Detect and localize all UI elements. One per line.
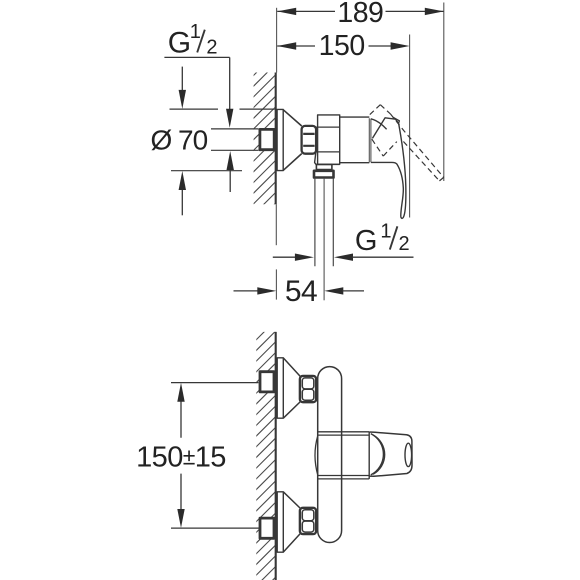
lever handle notch xyxy=(393,117,400,123)
svg-text:G: G xyxy=(168,27,191,60)
extension line at wall for dims 189/150 xyxy=(276,8,278,73)
svg-text:1: 1 xyxy=(190,21,201,43)
outlet pipe centre extension line xyxy=(323,179,325,301)
body left bulge xyxy=(315,436,318,476)
dia 70 extension line bottom xyxy=(171,170,242,172)
lever pivot dome arc (side view) xyxy=(371,119,387,130)
outlet G 1/2 dimension line xyxy=(273,256,298,258)
outlet pipe lines xyxy=(315,178,333,266)
dashed lever bottom edge xyxy=(403,142,439,181)
lower inlet group (mirrored) xyxy=(260,492,316,552)
dashed lever knob (open position) xyxy=(370,105,444,181)
dimension 189 line xyxy=(277,10,443,12)
svg-text:2: 2 xyxy=(206,36,217,58)
G 1/2 leader vertical with arrow to union square top xyxy=(229,57,231,111)
outlet collar lower band (thick) xyxy=(314,171,334,178)
lever handle blade xyxy=(371,123,406,218)
dimension 189 left arrowhead xyxy=(277,8,296,15)
upper escutcheon plate xyxy=(277,358,283,418)
dashed lever tip xyxy=(439,177,443,181)
dia 70 bottom arrow (up) xyxy=(181,188,183,215)
escutcheon plate (side view) xyxy=(277,109,283,170)
cartridge ring lines xyxy=(318,432,370,479)
dimension 189 right arrowhead xyxy=(425,8,444,15)
dimension 150±15 line xyxy=(180,400,182,511)
cartridge face line xyxy=(368,432,370,479)
svg-text:G: G xyxy=(355,225,378,257)
wall hatch (bottom drawing) xyxy=(248,293,292,580)
dia 70 top arrow (down) xyxy=(181,67,183,92)
cartridge cylinder (side view) xyxy=(340,117,370,163)
svg-text:189: 189 xyxy=(337,0,383,29)
label G 1/2 slash xyxy=(197,30,205,53)
hex nut (side view) xyxy=(302,126,317,154)
svg-text:54: 54 xyxy=(285,275,317,308)
dimension 54 line and arrows xyxy=(234,290,260,292)
extension line lower inlet centre xyxy=(171,527,259,529)
upper hex nut xyxy=(300,376,316,402)
dashed lever top edge xyxy=(390,114,443,177)
union square extension lines xyxy=(211,129,259,150)
extension line x=409.6 for dim 150 xyxy=(409,35,411,218)
wall hatch (side view, top drawing) xyxy=(244,39,290,246)
dimension 150±15 bottom arrowhead xyxy=(177,509,184,528)
upper escutcheon cone xyxy=(283,358,300,418)
escutcheon cone (side view) xyxy=(283,110,301,171)
handle dome arcs xyxy=(371,434,384,475)
svg-text:1: 1 xyxy=(380,221,391,243)
body capsule (bottom view) xyxy=(318,367,342,543)
G 1/2 leader underline xyxy=(164,56,229,58)
handle end oval xyxy=(405,443,412,466)
wall surface line (side view) xyxy=(275,73,277,205)
wall surface line (bottom view) xyxy=(275,332,277,580)
wall line thin continuation below wall xyxy=(275,204,277,245)
union square bottom arrow (up) xyxy=(229,168,231,192)
dashed lever neck notch xyxy=(372,139,383,156)
outlet G 1/2 slash xyxy=(390,226,398,249)
inlet union square (side view) xyxy=(260,129,274,149)
dimension 150±15 top arrowhead xyxy=(177,383,184,402)
svg-text:2: 2 xyxy=(398,233,409,255)
upper inlet union square (bottom view) xyxy=(260,372,274,392)
outlet collar upper band xyxy=(316,165,332,170)
label G 1/2 (top left) xyxy=(168,21,218,59)
inlet block of valve body (side view) xyxy=(318,115,340,164)
extension line x=443.8 for dim 189 xyxy=(443,3,445,182)
svg-text:150: 150 xyxy=(319,30,365,62)
svg-text:Ø 70: Ø 70 xyxy=(151,125,208,156)
svg-text:150±15: 150±15 xyxy=(136,441,226,473)
inlet passage lines through block xyxy=(316,127,340,152)
dimension 150 right arrowhead xyxy=(391,42,410,49)
dimension 150 left arrowhead xyxy=(277,42,296,49)
lever handle solid (side view) xyxy=(372,118,398,139)
dimension 54 wall extension line xyxy=(275,269,277,299)
outlet G 1/2 label xyxy=(355,221,410,257)
dia 70 extension line top xyxy=(170,108,275,110)
handle outline (bottom view) xyxy=(369,432,412,476)
extension line upper inlet centre xyxy=(171,382,258,384)
outlet elbow slant xyxy=(315,150,340,165)
dimension 150 line xyxy=(277,45,392,47)
cap seam lines xyxy=(369,118,371,162)
